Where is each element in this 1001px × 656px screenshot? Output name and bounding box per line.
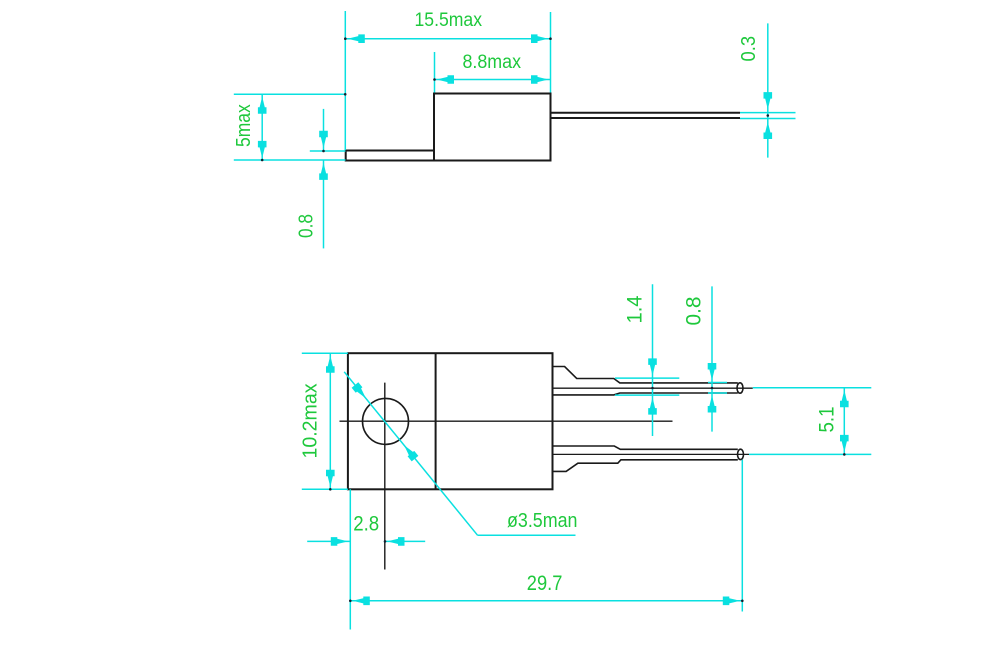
svg-text:29.7: 29.7 (527, 572, 563, 595)
svg-text:5.1: 5.1 (816, 407, 839, 433)
dimension 15.5max extension line right (550, 12, 552, 93)
dimension 0.8 lead label (683, 297, 706, 326)
svg-text:0.8: 0.8 (683, 297, 706, 326)
top view lead (551, 113, 741, 118)
dimension 0.8 lead dimension line (708, 286, 717, 431)
dimension 15.5max dimension line (344, 34, 552, 43)
dimension 10.2max dimension line (326, 353, 335, 490)
mounting hole centerline vertical (384, 383, 386, 570)
dimension 8.8max dimension line (433, 75, 550, 84)
dimension 5max extension lines (234, 94, 346, 160)
lead centerline extension lines (749, 388, 871, 455)
top view mounting tab (346, 151, 434, 161)
dimension 2.8 dimension line (307, 537, 425, 546)
svg-text:ø3.5man: ø3.5man (507, 510, 578, 532)
svg-text:1.4: 1.4 (624, 295, 647, 323)
dimension 29.7 extension line right (741, 460, 743, 612)
dimension 0.8 tab dimension line (319, 109, 328, 249)
dimension 5max dimension line (258, 93, 347, 161)
lead thickness extension lines (740, 113, 796, 119)
dimension 15.5max extension line left (344, 11, 346, 150)
dimension 10.2max label (300, 384, 322, 459)
hole diameter label (507, 510, 578, 532)
dimension 5.1 label (816, 407, 839, 433)
svg-text:15.5max: 15.5max (415, 10, 483, 31)
svg-text:10.2max: 10.2max (300, 384, 322, 459)
dimension 2.8 label (353, 512, 379, 535)
dimension 1.4 dimension line (648, 284, 657, 436)
dimension 29.7 label (527, 572, 563, 595)
dimension 5.1 dimension line (840, 388, 849, 456)
dimension 0.3 dimension line (764, 23, 773, 157)
svg-text:0.8: 0.8 (296, 214, 318, 238)
dimension 5max label (233, 104, 255, 147)
hole diameter leader line (344, 372, 575, 536)
dimension 0.3 label (738, 36, 760, 62)
svg-text:8.8max: 8.8max (463, 52, 522, 73)
front view upper lead (553, 367, 753, 395)
svg-text:0.3: 0.3 (738, 36, 760, 62)
dimension 29.7 extension line left (349, 489, 351, 629)
top view body outline (434, 94, 551, 161)
dimension 15.5max label (415, 10, 483, 31)
dimension 0.8 tab extension line (310, 150, 346, 152)
dimension 1.4 label (624, 295, 647, 323)
dimension 0.8 tab label (296, 214, 318, 238)
dimension 8.8max label (463, 52, 522, 73)
mounting hole centerline horizontal (340, 420, 673, 422)
svg-text:2.8: 2.8 (353, 512, 379, 535)
dimension 8.8max extension line left (434, 52, 436, 93)
front view tab/body separation line (435, 353, 437, 489)
dimension 1.4 extension lines (615, 378, 679, 395)
mounting hole circle (363, 398, 409, 444)
svg-text:5max: 5max (233, 104, 255, 147)
dimension 0.8 lead extension ticks (708, 383, 727, 394)
front view lower lead (553, 446, 750, 471)
front view body outline (348, 353, 553, 489)
dimension 29.7 dimension line (349, 597, 744, 606)
dimension 10.2max extension lines (302, 353, 348, 489)
